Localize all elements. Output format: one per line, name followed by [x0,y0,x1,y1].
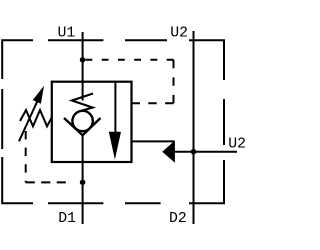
enclosure bottom dash [125,202,161,204]
enclosure bottom-right corner dash [189,160,224,203]
pilot line dashed vertical [173,60,175,104]
check valve spring [72,94,93,112]
svg-text:D1: D1 [58,211,76,227]
right arrowhead [163,142,174,162]
pilot line dashed (top to right) [86,59,174,61]
svg-text:U2: U2 [228,136,246,152]
vent line dashed horizontal [26,181,71,183]
enclosure top dash [125,39,167,41]
flow arrow in body [114,82,116,138]
svg-text:D2: D2 [169,211,187,227]
node junction top [80,57,86,63]
enclosure left-bottom corner dash [2,157,33,203]
node junction right [191,149,197,155]
vent line dashed (spring to drain) [25,131,27,182]
pilot line dashed lower [132,102,174,104]
enclosure left dash [1,89,3,149]
port U1 line [82,32,84,101]
enclosure bottom dash (port D1 crossing) [48,202,103,204]
node junction bottom [80,180,86,186]
wire body to right arrow [132,140,175,142]
port U2 side line [174,151,237,153]
enclosure top-left corner dash [2,40,33,79]
svg-text:U2: U2 [170,25,188,41]
enclosure top-right corner dash [189,40,224,80]
check valve ball [72,111,92,131]
port U2-D2 line [193,31,195,224]
flow arrowhead [109,132,121,160]
enclosure right dash [223,99,225,145]
port D1 line [82,136,84,225]
adjust arrow shaft [19,101,38,142]
svg-text:U1: U1 [58,25,76,41]
enclosure top dash (port U1 crossing) [48,39,103,41]
relief spring adjustable [20,110,52,126]
check valve seat [64,118,101,135]
adjust arrowhead [33,86,44,104]
valve body V1 [52,82,132,162]
